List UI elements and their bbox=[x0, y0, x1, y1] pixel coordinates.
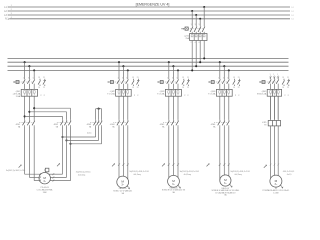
pin 1357 label pole3 bbox=[199, 24, 200, 26]
svg-text:22: 22 bbox=[187, 87, 189, 89]
operator handle QM5 bbox=[259, 81, 265, 84]
wire KM2 to motor pole2 bbox=[50, 140, 66, 178]
node tap QG1 pole1 on distribution bus bbox=[191, 69, 193, 71]
aux contact QM4 NC bbox=[238, 77, 241, 89]
wire KM2 out pole2 bbox=[66, 127, 68, 140]
pin 1357 label pole4 bbox=[0, 0, 1, 1]
dashed linkage QM4 bbox=[214, 81, 227, 83]
label M3 line2 bbox=[162, 189, 186, 192]
thermal-magnetic release box QG1 bbox=[190, 34, 207, 41]
value label 2 2 QM2 bbox=[134, 95, 139, 97]
breaker QM4 contact pole2 bbox=[222, 79, 225, 89]
breaker QM1 contact pole1 bbox=[23, 79, 26, 89]
contactor KM3 pole3 bbox=[100, 119, 103, 127]
svg-text:5: 5 bbox=[126, 77, 127, 79]
contactor KM2 pole2 bbox=[64, 119, 67, 127]
svg-text:9A: 9A bbox=[162, 125, 165, 128]
node label L1 right bbox=[291, 7, 294, 9]
dashed linkage KM3 bbox=[90, 122, 100, 124]
pin label QM3 pole2 bbox=[172, 77, 173, 79]
node tap QG1 pole3 on distribution bus bbox=[199, 61, 201, 63]
wire KM2 to motor pole3 bbox=[50, 144, 71, 182]
motor M2 bbox=[117, 176, 129, 188]
dashed linkage KM6 bbox=[214, 122, 227, 124]
node tap QG1 pole2 on top bus bbox=[195, 14, 197, 16]
label KM2 rating bbox=[56, 125, 59, 128]
cable label M4 line2 bbox=[234, 174, 241, 176]
label KM3 bbox=[86, 124, 92, 126]
svg-text:3: 3 bbox=[172, 77, 173, 79]
breaker QM4 contact pole1 bbox=[218, 79, 221, 89]
svg-text:/5.1: /5.1 bbox=[291, 11, 294, 13]
label M1 line3 bbox=[43, 192, 47, 194]
label M5 line1 bbox=[275, 188, 277, 190]
wire KM4 to motor pole3 bbox=[127, 127, 129, 179]
label QM1 line2 bbox=[13, 93, 21, 96]
node tap KM2 feed pole3 bbox=[33, 107, 35, 109]
label KM5 rating bbox=[162, 125, 165, 128]
overload box QM1 bbox=[21, 89, 37, 96]
svg-text:1: 1 bbox=[191, 24, 192, 26]
svg-text:1: 1 bbox=[218, 77, 219, 79]
wire QM2 pole3 drop bbox=[127, 70, 129, 79]
wire KM4 to motor pole1 bbox=[118, 127, 120, 177]
svg-text:4x2,5: 4x2,5 bbox=[87, 133, 91, 135]
dashed linkage QM5 bbox=[265, 81, 277, 83]
pin label QM5 pole1 bbox=[269, 77, 270, 79]
operator handle QM1 bbox=[13, 81, 19, 84]
pin label QM4 pole3 bbox=[227, 77, 228, 79]
label M5 line2 bbox=[263, 189, 290, 192]
node label L1 left bbox=[4, 5, 12, 9]
svg-text:9A: 9A bbox=[112, 125, 115, 128]
wire KM5 to motor pole1 bbox=[168, 127, 170, 178]
label QM4 line1 bbox=[210, 91, 216, 93]
breaker QG1 contact pole3 bbox=[198, 26, 201, 33]
cable label M4 line1 bbox=[230, 171, 249, 173]
label KM2 bbox=[53, 124, 59, 126]
svg-text:[EMERGENZE UV 4]: [EMERGENZE UV 4] bbox=[136, 3, 170, 7]
dashed linkage KM1 bbox=[19, 122, 33, 124]
cable label M1 left bbox=[6, 170, 25, 172]
reference arrow M1 left bbox=[19, 165, 22, 168]
svg-text:L2: L2 bbox=[4, 11, 7, 13]
svg-text:3x(2G1,5)+3G1,5+2G1: 3x(2G1,5)+3G1,5+2G1 bbox=[129, 171, 148, 173]
wire QM1 pole1 below box bbox=[24, 96, 26, 119]
operator handle QM4 bbox=[208, 81, 214, 84]
pin label QM4 pole2 bbox=[223, 77, 224, 79]
breaker QM1 contact pole3 bbox=[32, 79, 35, 89]
terminal box M1 bbox=[44, 168, 49, 172]
reference arrow M5 bbox=[264, 165, 267, 168]
wire QM5 pole1 mid bbox=[270, 96, 272, 120]
svg-text:4: 4 bbox=[195, 42, 196, 44]
pin label QM3 pole3 bbox=[177, 77, 178, 79]
svg-text:4x1,5: 4x1,5 bbox=[287, 174, 292, 176]
value label 2 2 QM3 bbox=[184, 95, 189, 97]
wire QM3 pole3 drop bbox=[177, 70, 179, 79]
wire top bus L3 bbox=[10, 14, 290, 16]
wire QG1 pole2 to distribution bus bbox=[195, 41, 197, 67]
aux contact QM4 NO bbox=[233, 77, 235, 89]
breaker QG1 contact pole2 bbox=[194, 26, 197, 33]
contactor KM1 pole3 bbox=[32, 119, 35, 127]
label KM1 rating bbox=[18, 125, 21, 128]
label M1 line2 bbox=[37, 189, 54, 192]
svg-text:1: 1 bbox=[118, 77, 119, 79]
svg-text:1: 1 bbox=[167, 77, 168, 79]
aux contact QM2 NC bbox=[137, 77, 140, 89]
node junction KM2 out pole3 bbox=[69, 143, 71, 145]
wire QM2 pole3 below box bbox=[127, 96, 129, 119]
label KM4 bbox=[110, 124, 116, 126]
breaker QM3 contact pole2 bbox=[171, 79, 174, 89]
pin 2468 label pole4 bbox=[0, 0, 1, 1]
pin 2468 label pole3 bbox=[199, 42, 200, 44]
terminal stub QM5 pole1 bbox=[270, 74, 272, 79]
node tap KM2 feed pole1 bbox=[24, 115, 26, 117]
contactor KM2 pole3 bbox=[68, 119, 71, 127]
cable label M2 line2 bbox=[133, 174, 140, 176]
pin 2468 label pole2 bbox=[195, 42, 196, 44]
wire QM5 pole2 mid bbox=[273, 96, 275, 120]
wire QM4 pole2 drop bbox=[223, 66, 225, 79]
wire QM2 pole2 drop bbox=[122, 66, 124, 79]
svg-text:14: 14 bbox=[38, 87, 40, 89]
wire KM6 to motor pole1 bbox=[219, 127, 221, 180]
svg-text:2: 2 bbox=[238, 95, 240, 97]
wire QM2 pole2 below box bbox=[122, 96, 124, 119]
dashed linkage KM2 bbox=[57, 122, 69, 124]
node tap QM1 pole1 bbox=[24, 61, 26, 63]
svg-text:1: 1 bbox=[270, 74, 271, 76]
wire QM4 pole1 below box bbox=[219, 96, 221, 119]
wire QM1 pole1 drop bbox=[24, 62, 26, 79]
pin label QM5 pole3 bbox=[277, 77, 278, 79]
svg-text:2: 2 bbox=[288, 95, 290, 97]
ground M2 bbox=[127, 186, 130, 189]
pin 2468 label pole1 bbox=[191, 42, 192, 44]
motor M3 bbox=[168, 175, 180, 187]
wire QG1 pole4 drop bbox=[203, 7, 205, 26]
aux contact QM3 NC bbox=[187, 77, 190, 89]
contactor KM4 pole3 bbox=[126, 119, 129, 127]
pin label QM4 pole1 bbox=[218, 77, 219, 79]
svg-text:3: 3 bbox=[11, 13, 12, 15]
label FR5 line1 bbox=[262, 122, 267, 124]
svg-text:15kA: 15kA bbox=[16, 95, 21, 98]
contactor KM6 pole2 bbox=[222, 119, 225, 127]
svg-text:ES A 3,2A: ES A 3,2A bbox=[257, 93, 267, 96]
label M2 line2 bbox=[113, 190, 132, 193]
node tap QG1 pole4 on distribution bus bbox=[203, 57, 205, 59]
wire QM4 pole2 below box bbox=[223, 96, 225, 119]
operator handle QG1 bbox=[181, 27, 188, 30]
wire link KM2-KM3 pole2 bbox=[67, 127, 99, 140]
terminal stub QM5 pole3 bbox=[277, 74, 279, 79]
svg-text:1,5kW: 1,5kW bbox=[273, 193, 279, 195]
svg-text:3~: 3~ bbox=[121, 184, 124, 187]
label QM3 line2 bbox=[157, 93, 165, 96]
breaker QM3 contact pole1 bbox=[167, 79, 170, 89]
operator handle QM2 bbox=[107, 81, 113, 84]
breaker QG1 contact pole4 bbox=[202, 26, 205, 33]
ground M5 bbox=[280, 185, 283, 188]
wire link KM2-KM3 pole1 bbox=[63, 127, 96, 137]
aux contact QM5 NC bbox=[287, 77, 290, 89]
svg-text:14: 14 bbox=[182, 87, 184, 89]
motor M1 bbox=[39, 173, 50, 184]
svg-text:4x1,5mq: 4x1,5mq bbox=[184, 174, 191, 176]
wire KM5 to motor pole3 bbox=[177, 127, 179, 178]
label KM1 bbox=[15, 124, 21, 126]
breaker QM5 contact pole2 bbox=[272, 79, 275, 89]
label M4 line2 bbox=[211, 189, 239, 192]
breaker QG1 contact pole1 bbox=[190, 26, 193, 33]
wire QM5 pole2 below box bbox=[273, 96, 275, 119]
wire link KM2-KM3 pole3 bbox=[71, 127, 102, 144]
contactor KM5 pole3 bbox=[176, 119, 179, 127]
node tap QM4 pole1 bbox=[219, 61, 221, 63]
pin label QM1 pole3 bbox=[33, 77, 34, 79]
svg-text:L1: L1 bbox=[4, 7, 7, 9]
ground M3 bbox=[178, 185, 181, 188]
reference arrow M3 bbox=[162, 163, 165, 166]
cable label M5 line2 bbox=[287, 174, 292, 176]
contactor KM5 pole1 bbox=[167, 119, 170, 127]
svg-text:2: 2 bbox=[44, 95, 46, 97]
label M2 line3 bbox=[122, 192, 125, 195]
svg-text:3~: 3~ bbox=[275, 183, 278, 186]
node label L2 right bbox=[291, 11, 294, 13]
cable label M5 line1 bbox=[283, 171, 294, 173]
svg-text:5: 5 bbox=[227, 77, 228, 79]
svg-text:2: 2 bbox=[40, 95, 42, 97]
pin label QM2 pole2 bbox=[122, 77, 123, 79]
label M5 line3 bbox=[273, 193, 279, 195]
svg-text:3~: 3~ bbox=[172, 183, 175, 186]
node label N left bbox=[5, 17, 12, 21]
aux contact QM1 NC bbox=[43, 77, 46, 89]
wire QG1 pole1 to distribution bus bbox=[191, 41, 193, 71]
wire KM2 feed pole3 bbox=[34, 108, 70, 119]
node label L3 right bbox=[291, 15, 294, 17]
contactor KM3 pole2 bbox=[97, 119, 100, 127]
wire KM2 feed pole1 bbox=[25, 116, 63, 119]
overload box QM4 bbox=[216, 89, 232, 96]
label M3 line3 bbox=[172, 191, 175, 194]
label KM5 bbox=[160, 124, 166, 126]
svg-text:14: 14 bbox=[282, 87, 284, 89]
svg-text:2: 2 bbox=[191, 42, 192, 44]
wire KM3 pole1 top bbox=[95, 109, 97, 120]
overload box QM5 bbox=[267, 89, 281, 96]
wire QM3 pole2 below box bbox=[172, 96, 174, 119]
motor M4 bbox=[220, 175, 231, 186]
dashed linkage QM3 bbox=[163, 81, 177, 83]
svg-text:T 5 6,3A: T 5 6,3A bbox=[107, 93, 115, 96]
contactor KM1 pole1 bbox=[23, 119, 26, 127]
wire QM2 pole1 drop bbox=[118, 62, 120, 79]
label QM2 line1 bbox=[110, 91, 116, 93]
svg-text:3x(2G1,5)+3G1,5+2G1: 3x(2G1,5)+3G1,5+2G1 bbox=[6, 170, 25, 172]
dashed linkage QG1 bbox=[188, 28, 203, 30]
node label L3 left bbox=[4, 13, 12, 17]
breaker QM2 contact pole1 bbox=[117, 79, 120, 89]
label M2 line1 bbox=[119, 187, 127, 190]
svg-text:3x(2G1,5)+3G1,5+2G1: 3x(2G1,5)+3G1,5+2G1 bbox=[230, 171, 249, 173]
dashed linkage KM4 bbox=[113, 122, 126, 124]
svg-text:2: 2 bbox=[235, 95, 237, 97]
node label L2 left bbox=[4, 9, 12, 13]
svg-text:22: 22 bbox=[238, 87, 240, 89]
label QG1 bbox=[184, 35, 190, 40]
wire QG1 pole3 drop bbox=[199, 19, 201, 26]
breaker QM5 contact pole3 bbox=[276, 79, 279, 89]
svg-text:1: 1 bbox=[269, 77, 270, 79]
svg-text:/5.1: /5.1 bbox=[291, 15, 294, 17]
wire KM2 feed pole2 bbox=[29, 112, 66, 120]
node tap QG1 pole3 on top bus bbox=[199, 18, 201, 20]
label QM3 line1 bbox=[159, 91, 165, 93]
label KM6 bbox=[211, 124, 217, 126]
contactor KM5 pole2 bbox=[171, 119, 174, 127]
wire KM2 to motor pole1 bbox=[49, 137, 63, 175]
label M4 line3 bbox=[215, 191, 236, 194]
wire KM6 to motor pole2 bbox=[223, 127, 225, 175]
breaker QM1 contact pole2 bbox=[27, 79, 30, 89]
label KM6 rating bbox=[213, 125, 216, 128]
wire QM5 pole3 mid bbox=[277, 96, 279, 120]
cable label M1 right line1 bbox=[76, 172, 91, 174]
wire distribution bus L1 bbox=[8, 57, 289, 59]
wire QM3 pole1 drop bbox=[168, 62, 170, 79]
wire top bus L1 bbox=[10, 6, 290, 8]
node tap QG1 pole1 on top bus bbox=[191, 10, 193, 12]
wire top bus L2 bbox=[10, 10, 290, 12]
breaker QM4 contact pole3 bbox=[227, 79, 230, 89]
node tap QM3 pole3 bbox=[177, 69, 179, 71]
svg-text:2: 2 bbox=[187, 95, 189, 97]
node tap QG1 pole2 on distribution bus bbox=[195, 65, 197, 67]
node tap QM3 pole2 bbox=[172, 65, 174, 67]
wire QM4 pole1 drop bbox=[219, 62, 221, 79]
svg-text:4x2,5mq: 4x2,5mq bbox=[234, 174, 241, 176]
wire distribution bus N bbox=[8, 69, 289, 71]
svg-text:3x(2G1,5)+3G1,5: 3x(2G1,5)+3G1,5 bbox=[76, 172, 91, 174]
pin label QM3 pole1 bbox=[167, 77, 168, 79]
node tap QM4 pole2 bbox=[223, 65, 225, 67]
label M1 line1 bbox=[41, 187, 49, 189]
svg-text:L3: L3 bbox=[4, 15, 7, 17]
wire QM4 pole3 below box bbox=[228, 96, 230, 119]
svg-text:/5.1: /5.1 bbox=[291, 19, 294, 21]
node tap QM2 pole3 bbox=[127, 69, 129, 71]
terminal stub QM5 pole2 bbox=[273, 74, 275, 79]
node tap QM1 pole2 bbox=[28, 65, 30, 67]
contactor KM6 pole3 bbox=[227, 119, 230, 127]
wire FR5 to motor pole2 bbox=[274, 126, 276, 175]
svg-text:22: 22 bbox=[287, 87, 289, 89]
cable label M3 line2 bbox=[184, 174, 191, 176]
svg-text:T8: T8 bbox=[264, 125, 267, 127]
aux contact QM1 NO bbox=[38, 77, 40, 89]
cable label M1 right line2 bbox=[78, 175, 85, 177]
svg-text:5: 5 bbox=[177, 77, 178, 79]
svg-text:5: 5 bbox=[277, 77, 278, 79]
svg-text:2: 2 bbox=[134, 95, 136, 97]
wire KM6 to motor pole3 bbox=[228, 127, 230, 176]
wire FR5 to motor pole1 bbox=[270, 126, 272, 178]
wire KM1 to motor pole3 bbox=[34, 127, 41, 182]
label QM1 line3 bbox=[16, 95, 21, 98]
svg-text:3x(2G1,5)+3G1,5+2G1: 3x(2G1,5)+3G1,5+2G1 bbox=[180, 171, 199, 173]
wire QM5 pole1 below box bbox=[270, 96, 272, 119]
svg-text:22: 22 bbox=[137, 87, 139, 89]
contactor KM1 pole2 bbox=[27, 119, 30, 127]
wire distribution bus L2 bbox=[8, 61, 289, 63]
label KM3 rating bbox=[89, 125, 92, 128]
svg-text:14: 14 bbox=[132, 87, 134, 89]
pin 1357 label pole2 bbox=[195, 24, 196, 26]
svg-text:3~: 3~ bbox=[224, 182, 227, 185]
wire QM2 pole1 below box bbox=[118, 96, 120, 119]
operator handle QM3 bbox=[157, 81, 163, 84]
wire KM1 to motor pole2 bbox=[29, 127, 41, 178]
svg-text:25A: 25A bbox=[185, 37, 189, 40]
motor M5 bbox=[270, 175, 282, 187]
breaker QM5 contact pole1 bbox=[269, 79, 272, 89]
pin label QM2 pole3 bbox=[126, 77, 127, 79]
node tap QM2 pole2 bbox=[122, 65, 124, 67]
wire KM3 pole3 top bbox=[101, 109, 103, 120]
contactor KM4 pole2 bbox=[121, 119, 124, 127]
overload box QM3 bbox=[165, 89, 181, 96]
wire QM3 pole2 drop bbox=[172, 66, 174, 79]
svg-text:3: 3 bbox=[122, 77, 123, 79]
wire QM1 pole2 below box bbox=[28, 96, 30, 119]
svg-text:2: 2 bbox=[184, 95, 186, 97]
label QM5 line1 bbox=[261, 91, 267, 93]
label QM1 line1 bbox=[15, 91, 21, 93]
wire QM1 pole3 below box bbox=[33, 96, 35, 119]
svg-text:6: 6 bbox=[199, 42, 200, 44]
label QM4 line2 bbox=[208, 93, 216, 96]
contactor KM3 pole1 bbox=[94, 119, 97, 127]
node tap QM2 pole1 bbox=[118, 61, 120, 63]
label QM5 line2 bbox=[257, 93, 267, 96]
title text EMERGENZE UV 4 bbox=[136, 3, 170, 7]
wire QG1 pole2 drop bbox=[195, 15, 197, 26]
wire top bus N bbox=[10, 18, 290, 20]
overload box QM2 bbox=[116, 89, 132, 96]
contactor KM2 pole1 bbox=[60, 119, 63, 127]
node junction KM2 out pole2 bbox=[65, 139, 67, 141]
star bridge KM3 bbox=[96, 107, 102, 109]
svg-text:9A: 9A bbox=[56, 125, 59, 128]
node tap KM2 feed pole2 bbox=[28, 111, 30, 113]
label M3 line1 bbox=[170, 186, 178, 189]
pin label QM5 pole2 bbox=[273, 77, 274, 79]
svg-text:2: 2 bbox=[11, 9, 12, 11]
svg-text:4G1,5+2G1,5: 4G1,5+2G1,5 bbox=[283, 171, 294, 173]
wire KM1 to motor pole1 bbox=[25, 127, 41, 175]
node tap QM4 pole3 bbox=[228, 69, 230, 71]
wire QM3 pole1 below box bbox=[168, 96, 170, 119]
svg-text:9A: 9A bbox=[213, 125, 216, 128]
dashed linkage KM5 bbox=[163, 122, 176, 124]
wire KM3 pole2 top bbox=[98, 109, 100, 120]
